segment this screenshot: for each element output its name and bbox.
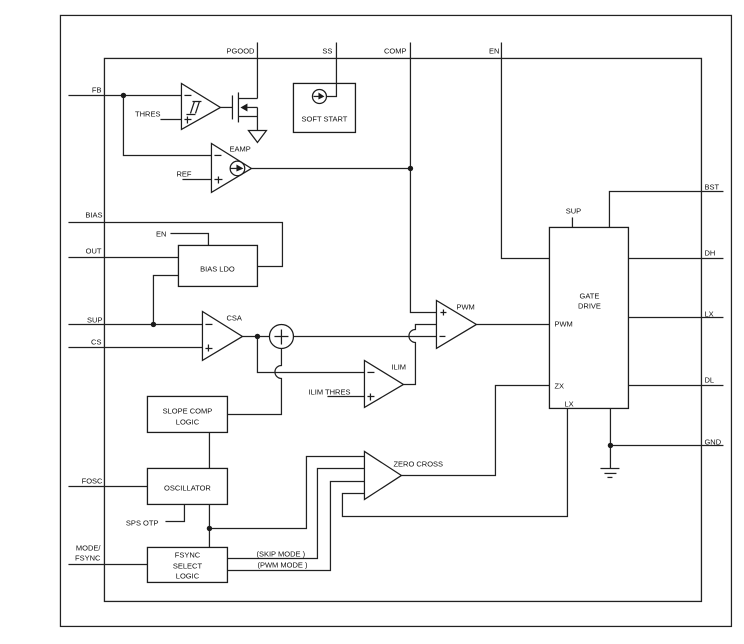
svg-text:ZERO CROSS: ZERO CROSS xyxy=(393,459,443,468)
svg-text:GATE: GATE xyxy=(580,291,600,300)
svg-text:SUP: SUP xyxy=(87,315,102,324)
svg-text:SLOPE COMP: SLOPE COMP xyxy=(163,406,213,415)
svg-text:SELECT: SELECT xyxy=(173,561,203,570)
svg-text:THRES: THRES xyxy=(135,109,160,118)
svg-text:LOGIC: LOGIC xyxy=(176,571,200,580)
svg-text:CS: CS xyxy=(91,337,101,346)
svg-text:EN: EN xyxy=(156,229,166,238)
svg-text:(SKIP MODE ): (SKIP MODE ) xyxy=(256,549,305,558)
svg-text:FSYNC: FSYNC xyxy=(175,550,201,559)
svg-text:BST: BST xyxy=(704,182,719,191)
svg-text:MODE/: MODE/ xyxy=(76,543,102,552)
svg-text:SOFT START: SOFT START xyxy=(302,114,348,123)
svg-text:LOGIC: LOGIC xyxy=(176,417,200,426)
svg-text:EAMP: EAMP xyxy=(229,144,250,153)
svg-text:ILIM: ILIM xyxy=(391,362,406,371)
svg-text:GND: GND xyxy=(704,437,721,446)
svg-text:LX: LX xyxy=(564,399,573,408)
svg-text:CSA: CSA xyxy=(226,313,241,322)
svg-text:REF: REF xyxy=(176,169,191,178)
svg-text:PWM: PWM xyxy=(554,319,572,328)
svg-text:COMP: COMP xyxy=(384,46,407,55)
svg-text:PWM: PWM xyxy=(456,302,474,311)
svg-text:ILIM THRES: ILIM THRES xyxy=(308,387,350,396)
svg-text:DH: DH xyxy=(704,248,715,257)
svg-text:ZX: ZX xyxy=(554,381,564,390)
svg-text:SPS OTP: SPS OTP xyxy=(126,518,159,527)
svg-text:BIAS LDO: BIAS LDO xyxy=(200,264,235,273)
svg-text:FB: FB xyxy=(92,85,102,94)
svg-text:OSCILLATOR: OSCILLATOR xyxy=(164,483,211,492)
svg-text:BIAS: BIAS xyxy=(85,210,102,219)
svg-text:EN: EN xyxy=(489,46,499,55)
svg-text:DL: DL xyxy=(704,375,714,384)
svg-text:SS: SS xyxy=(322,46,332,55)
svg-text:DRIVE: DRIVE xyxy=(578,301,601,310)
svg-text:OUT: OUT xyxy=(86,246,102,255)
svg-text:LX: LX xyxy=(704,309,713,318)
svg-text:FSYNC: FSYNC xyxy=(75,553,101,562)
svg-text:SUP: SUP xyxy=(566,206,581,215)
svg-text:(PWM MODE ): (PWM MODE ) xyxy=(257,560,307,569)
svg-text:PGOOD: PGOOD xyxy=(227,46,256,55)
svg-text:FOSC: FOSC xyxy=(82,476,103,485)
